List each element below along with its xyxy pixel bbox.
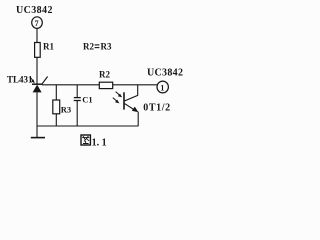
svg-text:UC3842: UC3842 — [16, 5, 53, 16]
light arrow 1 into OT1 — [116, 92, 123, 98]
light arrow 2 into OT1 — [113, 98, 120, 104]
svg-text:UC3842: UC3842 — [147, 67, 183, 78]
svg-text:R3: R3 — [101, 41, 112, 51]
label UC3842 top-left — [16, 5, 53, 16]
ground — [31, 137, 45, 139]
svg-text:R2: R2 — [99, 69, 110, 79]
wire C1 to rail — [76, 101, 78, 127]
resistor R2 — [99, 69, 113, 88]
label R2=R3 — [83, 41, 112, 51]
phototransistor OT1/2 — [124, 85, 171, 126]
wire R1 to TL431 cathode — [36, 57, 38, 84]
wire R3 to rail — [55, 114, 57, 126]
wire pin7 to R1 — [36, 28, 38, 42]
label TL431 — [7, 75, 33, 85]
svg-text:7: 7 — [35, 19, 39, 28]
main node wire (cathode to pin 1) — [42, 84, 157, 86]
svg-text:1. 1: 1. 1 — [92, 137, 107, 148]
resistor R1 — [35, 42, 55, 58]
svg-text:1: 1 — [160, 84, 164, 93]
svg-text:TL431: TL431 — [7, 75, 33, 85]
svg-text:C1: C1 — [82, 94, 92, 104]
resistor R3 — [53, 100, 71, 115]
TL431 reference arrow — [31, 78, 35, 84]
bottom rail wire — [37, 125, 139, 127]
wire C1 branch — [76, 85, 78, 98]
TL431 shunt regulator D1 — [32, 77, 48, 93]
wire TL431 anode down to ground — [36, 92, 38, 137]
label UC3842 top-right — [147, 67, 183, 78]
capacitor C1 — [74, 94, 93, 104]
wire R3 branch — [55, 85, 57, 100]
svg-text:R2: R2 — [83, 41, 94, 51]
pin 1 circle — [157, 81, 168, 93]
svg-text:0T1/2: 0T1/2 — [143, 102, 170, 113]
pin 7 circle — [32, 17, 43, 29]
svg-text:R1: R1 — [43, 42, 54, 52]
svg-text:R3: R3 — [61, 105, 71, 115]
caption figure 1.1 — [81, 135, 107, 148]
